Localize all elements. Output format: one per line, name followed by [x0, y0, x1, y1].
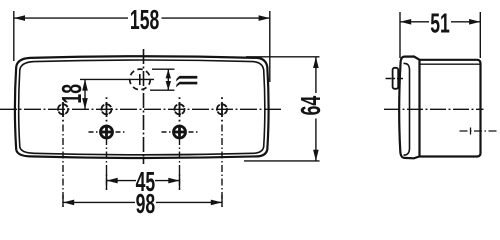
dim 45 arrow right [168, 178, 179, 184]
side view housing [420, 60, 481, 157]
side view mounting tab [393, 68, 399, 89]
svg-text:18: 18 [56, 84, 87, 104]
svg-text:64: 64 [295, 96, 326, 116]
dim 64 line [315, 57, 317, 93]
side view lower screw axis [460, 130, 498, 132]
lamp inner lens line (front view) [19, 60, 265, 155]
side view lower screw tick [470, 128, 472, 135]
dim 98 line [63, 201, 135, 203]
dim 64 arrow down [313, 150, 319, 161]
dim 64 arrow up [313, 57, 319, 68]
dim 18 line [84, 79, 86, 109]
screw S1 [89, 126, 125, 138]
dim 98 arrow right [211, 200, 222, 206]
dim 18 arrow down [82, 98, 88, 109]
node circle B (x=106.5) [102, 104, 112, 114]
svg-text:158: 158 [130, 4, 159, 35]
dim 98 extension solid right [221, 195, 223, 207]
dim 51 extension line left [399, 12, 401, 58]
node circle D (x=222) [217, 104, 227, 114]
dim 158 extension line right [269, 11, 271, 82]
dim 64 extension line top [246, 56, 320, 58]
dim 11 text (rotated "11" drawn as bars) [176, 76, 197, 87]
side view lens outline [399, 57, 419, 159]
dim 18 extension line [80, 78, 154, 80]
side view housing seam [420, 63, 481, 65]
dim 51 arrow left [400, 19, 411, 25]
top hole dashed circle [130, 69, 151, 90]
dim 45 extension solid right [179, 172, 181, 190]
node circle D vertical centerline / 98 extension [221, 97, 223, 121]
node circle A (x=63) [58, 104, 68, 114]
dim 158 arrow right [259, 15, 270, 21]
vertical centerline [143, 49, 145, 164]
horizontal centerline [0, 108, 283, 110]
node circle C vertical centerline / 45 extension [179, 97, 181, 121]
dim 45 extension solid left [106, 172, 108, 190]
svg-text:51: 51 [430, 7, 450, 38]
top hole center tick [139, 74, 141, 85]
side view lens inner line [404, 63, 410, 155]
dim 158 arrow left [14, 15, 25, 21]
node circle C (x=179.5) [175, 104, 185, 114]
side view tab screw axis [386, 78, 405, 80]
svg-text:98: 98 [136, 188, 156, 218]
dim 51 extension line right [479, 12, 481, 58]
dim 158 line [14, 17, 128, 19]
dim 45 arrow left [107, 178, 118, 184]
dim 64 extension line bottom [244, 160, 320, 162]
dim 11 arrow down [166, 81, 171, 90]
dim 98 extension solid left [62, 195, 64, 207]
dim 11 arrow up [166, 69, 171, 78]
dim 98 arrow left [63, 200, 74, 206]
dim 18 arrow up [82, 79, 88, 90]
dim 11 extension line top [152, 68, 175, 70]
side view centerline [384, 108, 484, 110]
dim 45 line [107, 180, 137, 182]
dim 51 line [400, 21, 429, 23]
lamp outer outline (front view) [15, 56, 269, 158]
dim 51 arrow right [469, 19, 480, 25]
node circle A vertical centerline / 98 extension [62, 97, 64, 121]
screw S2 [162, 126, 198, 138]
dim 158 extension line left [13, 11, 15, 61]
dim 11 extension line bottom [150, 89, 175, 91]
node circle B vertical centerline / 45 extension [106, 97, 108, 121]
dim 11 line [167, 69, 169, 90]
